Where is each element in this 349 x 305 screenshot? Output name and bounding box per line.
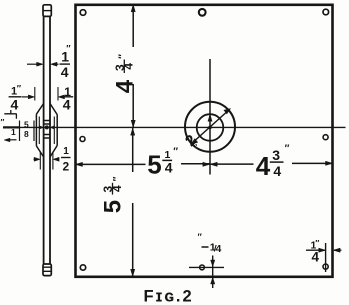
hub center blob	[45, 125, 49, 129]
svg-text:1: 1	[63, 146, 69, 157]
svg-text:″: ″	[173, 147, 178, 158]
svg-text:4: 4	[63, 97, 71, 113]
label 1/4 top	[60, 44, 72, 81]
left small leader line	[4, 110, 16, 119]
dim line 5 3/4 vertical	[132, 128, 134, 276]
label 5 1/4	[147, 147, 178, 180]
hub bore thread ticks	[44, 121, 50, 139]
dim bar thickness 1/4 at top	[27, 63, 39, 65]
svg-text:8: 8	[24, 129, 29, 139]
left tiny arrow	[7, 139, 17, 141]
svg-text:4: 4	[11, 97, 19, 113]
svg-text:″: ″	[285, 143, 290, 154]
hole right-middle	[323, 135, 328, 140]
label 4 3/4 rotated	[112, 54, 139, 93]
horizontal center line	[3, 126, 346, 128]
svg-text:″: ″	[66, 44, 71, 54]
plate outline	[76, 5, 333, 277]
svg-text:5: 5	[147, 150, 161, 180]
hole top-left	[80, 10, 86, 16]
dim line 4 3/4 vertical	[132, 5, 134, 128]
hole top-middle	[199, 9, 206, 16]
side view bottom cap	[43, 264, 51, 276]
svg-text:4: 4	[216, 243, 222, 255]
svg-text:4: 4	[312, 250, 320, 265]
svg-text:4: 4	[61, 64, 69, 80]
hub root extension lines bottom	[40, 152, 53, 170]
side view top cap	[43, 5, 51, 17]
svg-text:1: 1	[11, 127, 16, 137]
hole bottom-middle	[200, 265, 205, 270]
hub right face	[56, 115, 58, 146]
label 1/2	[61, 146, 71, 174]
svg-text:2: 2	[63, 160, 70, 174]
center hole inner circle	[197, 114, 224, 141]
label -1/4 bottom-center	[198, 232, 222, 255]
svg-text:4: 4	[110, 185, 124, 192]
hole bottom-right	[323, 264, 328, 269]
label 1/4 right	[60, 85, 73, 113]
vertical center line of hole	[209, 59, 211, 175]
label 4 3/4	[256, 143, 290, 181]
tiny dim extension lines 5/8	[20, 121, 35, 142]
hole left-middle	[80, 137, 85, 142]
side view bar	[44, 16, 50, 264]
hub face extension lines top	[35, 87, 58, 101]
center hole outer circle	[185, 102, 235, 152]
svg-text:5: 5	[100, 200, 127, 213]
dim hub flange 1/4 left arrow	[22, 96, 31, 98]
svg-text:″: ″	[1, 118, 5, 127]
bottom-center hole dimension	[189, 266, 224, 268]
svg-text:4: 4	[256, 151, 271, 181]
svg-text:″: ″	[118, 54, 129, 59]
svg-text:″: ″	[198, 232, 203, 242]
svg-text:4: 4	[112, 79, 139, 93]
label 1/4 bottom-right	[311, 238, 320, 265]
dim 1/2 arrows	[34, 158, 38, 160]
svg-text:″: ″	[17, 84, 22, 94]
radius arrow up to inner circle	[208, 115, 212, 122]
svg-text:Fɪɢ.2: Fɪɢ.2	[144, 288, 194, 305]
hole top-right	[323, 9, 329, 15]
dim hub flange 1/4 right arrow	[58, 95, 64, 99]
svg-text:″: ″	[315, 238, 319, 248]
label 5 3/4 rotated	[100, 176, 127, 213]
hub taper bottom	[36, 146, 57, 158]
label 1/4 left with inch	[9, 84, 22, 113]
svg-text:″: ″	[112, 176, 123, 181]
hub left face	[35, 114, 37, 146]
hub flare top	[36, 104, 57, 115]
svg-text:4: 4	[165, 160, 173, 176]
hole bottom-left	[80, 265, 85, 270]
svg-text:3: 3	[272, 147, 280, 163]
svg-text:4: 4	[273, 163, 281, 179]
hub bore arrows on centerline	[39, 126, 43, 129]
center dot	[208, 126, 212, 130]
hub inner steps	[39, 117, 54, 145]
dim line horizontal 5 1/4 / 4 3/4	[76, 163, 333, 164]
diameter arrow diagonal	[193, 110, 229, 143]
svg-text:4: 4	[122, 63, 136, 70]
svg-text:5: 5	[24, 120, 29, 130]
bottom-right hole dimension	[325, 243, 327, 272]
